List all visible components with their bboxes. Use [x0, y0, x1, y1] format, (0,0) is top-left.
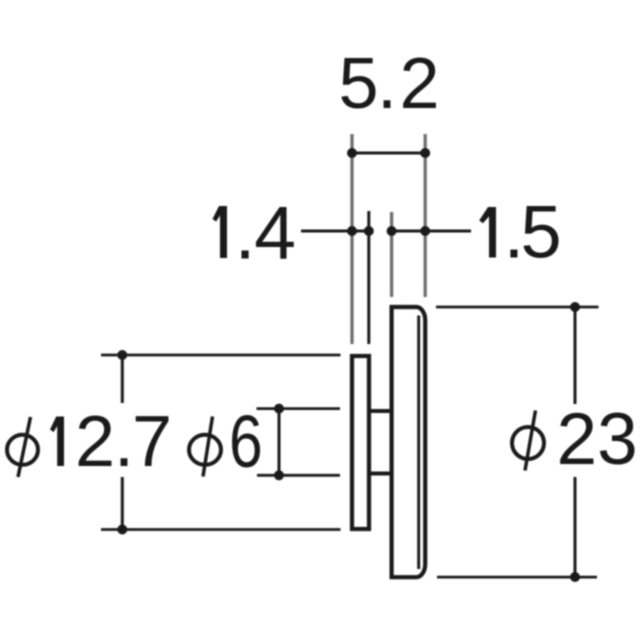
dimension line 5.2 — [352, 152, 425, 155]
dimension phi23 vertical lower segment — [574, 477, 577, 577]
node dot phi6 bottom — [274, 470, 284, 480]
node dot phi23 top — [570, 302, 580, 312]
wire: phi6 bottom horizontal — [257, 474, 340, 477]
svg-text:.5: .5 — [504, 191, 562, 274]
svg-text:.4: .4 — [235, 191, 296, 275]
phi symbol of phi23 — [512, 411, 544, 471]
label 1.4 — [213, 206, 228, 258]
phi symbol of phi12.7 — [7, 417, 38, 477]
node dot phi6 top — [274, 404, 284, 414]
wire: extension line plate right edge — [367, 211, 370, 344]
wire: extension line disc left edge — [390, 212, 393, 297]
wire: phi12.7 top horizontal — [101, 354, 341, 357]
svg-text:5.2: 5.2 — [339, 44, 440, 124]
dimension line 1.4 — [301, 230, 369, 233]
wire: phi12.7 bottom horizontal — [101, 528, 341, 531]
node dot 1.5 left — [387, 226, 397, 236]
disc rim inner line — [417, 316, 420, 570]
phi symbol of phi6 — [189, 417, 221, 477]
svg-text:2.7: 2.7 — [75, 402, 172, 482]
wire: phi23 top horizontal — [436, 306, 599, 309]
node dot 1.5 right — [420, 226, 430, 236]
node dot 5.2 left — [347, 148, 357, 158]
svg-text:23: 23 — [557, 399, 638, 480]
dimension phi12.7 vertical lower segment — [121, 477, 124, 530]
node dot 1.4 right — [364, 226, 374, 236]
label 12.7 — [50, 417, 64, 467]
wire: extension line left of 5.2 span — [350, 134, 353, 344]
node dot 1.4 left — [347, 226, 357, 236]
dimension phi23 vertical upper segment — [574, 307, 577, 404]
node dot phi12.7 bottom — [117, 525, 127, 535]
shaft (phi6 stem) — [369, 411, 392, 474]
node dot phi23 bottom — [570, 572, 580, 582]
wire: phi23 bottom horizontal — [437, 576, 597, 579]
plate (phi12.7 disc side view) — [352, 356, 369, 529]
svg-text:6: 6 — [229, 401, 263, 483]
label 1.5 — [479, 207, 496, 258]
node dot 5.2 right — [420, 148, 430, 158]
disc (phi23 body) — [392, 307, 426, 577]
wire: extension line right of 5.2 span — [424, 134, 427, 297]
dimension line 1.5 — [392, 230, 471, 233]
wire: phi6 top horizontal — [257, 407, 341, 410]
dimension phi6 vertical — [278, 409, 281, 476]
dimension phi12.7 vertical upper segment — [121, 355, 124, 403]
node dot phi12.7 top — [117, 350, 127, 360]
